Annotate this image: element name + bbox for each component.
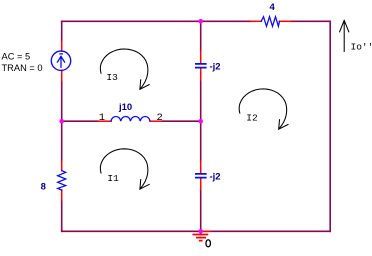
svg-text:2: 2: [157, 112, 163, 124]
red pin R4 right: [279, 20, 291, 22]
svg-text:I2: I2: [246, 113, 258, 124]
red pin L1 left: [98, 120, 111, 122]
ground symbol bars: [193, 235, 207, 241]
svg-text:1: 1: [99, 112, 105, 124]
red pin R8 top: [61, 161, 63, 171]
wire middle horizontal segments: [62, 120, 201, 122]
ground symbol stem: [200, 231, 202, 235]
current source I circle: [51, 51, 70, 70]
red pin L1 right: [150, 120, 162, 122]
red pin source top: [61, 41, 63, 51]
wire left vertical bottom segment: [61, 200, 63, 231]
mesh loop I2 arrow: [239, 89, 288, 129]
junction dot center middle: [198, 119, 203, 124]
red pin C1 top: [200, 51, 202, 63]
svg-text:I1: I1: [107, 173, 119, 184]
resistor R8 zigzag: [58, 171, 66, 191]
svg-text:8: 8: [41, 181, 46, 192]
svg-text:AC = 5: AC = 5: [2, 52, 31, 62]
red pin C1 bottom: [200, 68, 202, 80]
label node 0: [206, 240, 211, 247]
red ground stub on bottom wire: [201, 230, 210, 232]
current source arrow: [57, 54, 64, 67]
capacitor C2 plates: [196, 174, 206, 178]
svg-text:Io'': Io'': [351, 42, 372, 53]
wire middle vertical segments: [200, 21, 202, 231]
svg-text:-j2: -j2: [210, 62, 221, 73]
svg-text:4: 4: [270, 2, 276, 13]
wire left vertical middle segment: [61, 81, 63, 161]
red pin C2 top: [200, 161, 202, 173]
Io current arrow: [340, 20, 349, 51]
resistor R4 zigzag: [261, 17, 279, 27]
svg-text:I3: I3: [106, 72, 118, 83]
mesh loop I3 arrow: [100, 49, 149, 89]
junction dot left middle: [59, 119, 64, 124]
svg-text:-j2: -j2: [210, 172, 221, 183]
red pin R4 left: [251, 20, 262, 22]
inductor L1 coil: [111, 117, 150, 122]
junction dot top: [198, 19, 203, 24]
red pin source bottom: [61, 70, 63, 81]
mesh loop I1 arrow: [100, 149, 149, 189]
wire top right segment: [291, 20, 330, 22]
junction dot ground: [198, 229, 203, 234]
wire right vertical: [329, 21, 331, 231]
capacitor C1 plates: [196, 64, 206, 68]
svg-text:j10: j10: [118, 102, 132, 113]
wire bottom: [62, 230, 331, 232]
red pin C2 bottom: [200, 178, 202, 190]
wire left vertical top segment: [61, 21, 63, 41]
svg-text:TRAN = 0: TRAN = 0: [2, 63, 43, 73]
red pin R8 bottom: [61, 190, 63, 200]
wire top left segment: [62, 20, 251, 22]
